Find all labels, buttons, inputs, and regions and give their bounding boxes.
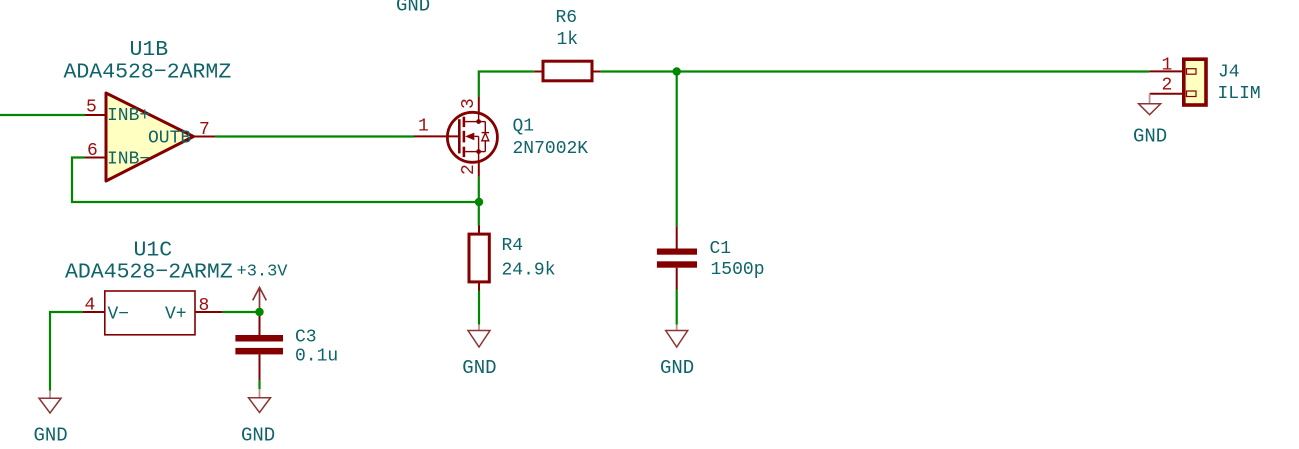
op-amp U1B [85,93,215,181]
svg-text:V−: V− [108,305,130,325]
wire C1 to GND [676,290,678,325]
junction node at R6/C1 [673,67,681,75]
svg-text:GND: GND [34,425,68,447]
svg-text:6: 6 [87,141,98,161]
svg-text:0.1u: 0.1u [295,347,338,367]
svg-text:1: 1 [1162,55,1173,75]
power GND (under C3) [249,389,271,413]
svg-text:ILIM: ILIM [1218,84,1261,104]
wire junction down to C1 [676,72,678,227]
svg-text:2: 2 [1162,76,1173,96]
svg-text:2: 2 [459,164,479,175]
op-amp U1C power unit [83,291,222,335]
svg-text:GND: GND [1133,126,1167,148]
capacitor C1 [657,226,697,289]
svg-text:C3: C3 [295,328,317,348]
svg-text:R6: R6 [556,8,578,28]
svg-text:GND: GND [660,357,694,379]
wire feedback from U1B pin6 to node under Q1 [72,158,479,203]
resistor R6 [534,61,600,81]
svg-text:24.9k: 24.9k [502,261,556,281]
connector J4 [1149,59,1206,105]
svg-text:GND: GND [462,357,496,379]
svg-text:INB−: INB− [107,150,150,170]
svg-text:Q1: Q1 [513,117,535,137]
resistor R4 [469,226,489,291]
svg-text:GND: GND [396,0,430,17]
wire Q1 source to junction to R4 [478,177,480,226]
power GND (under R4) [468,325,490,348]
power GND (left, under U1C) [39,391,61,414]
svg-text:5: 5 [86,98,97,118]
svg-text:GND: GND [241,425,275,447]
wire R4 to GND [478,291,480,325]
wire U1C pin8 to +3.3V node [222,311,259,313]
svg-text:4: 4 [85,296,96,316]
svg-text:ADA4528−2ARMZ: ADA4528−2ARMZ [65,261,233,285]
svg-text:1500p: 1500p [711,260,765,280]
svg-text:R4: R4 [502,236,524,256]
capacitor C3 [235,312,283,380]
junction node under Q1 [475,198,483,206]
svg-text:U1B: U1B [130,38,169,62]
svg-text:1k: 1k [557,30,579,50]
svg-text:V+: V+ [165,305,187,325]
svg-text:2N7002K: 2N7002K [513,139,589,159]
svg-text:C1: C1 [710,239,732,259]
svg-text:8: 8 [199,296,210,316]
svg-text:U1C: U1C [134,239,173,263]
wire U1C pin4 to GND [50,312,83,391]
svg-text:INB+: INB+ [107,106,150,126]
svg-text:OUTB: OUTB [148,129,191,149]
power flag +3.3V [253,287,267,312]
power GND (under C1) [666,325,688,348]
svg-text:7: 7 [199,120,210,140]
svg-text:1: 1 [418,117,429,137]
power GND (under J4 pin2) [1139,94,1161,115]
wire R6 to J4 pin1 [600,70,1149,72]
svg-text:ADA4528−2ARMZ: ADA4528−2ARMZ [64,61,232,85]
junction node at U1C pin8 / C3 / +3.3V [255,308,263,316]
wire input to U1B pin5 [0,114,85,116]
svg-text:3: 3 [459,98,479,109]
svg-text:+3.3V: +3.3V [237,263,289,282]
transistor Q1 [414,97,497,177]
wire U1B output to Q1 gate [215,135,414,137]
wire Q1 drain to R6 [479,72,535,98]
wire C3 to GND [258,380,260,389]
svg-text:J4: J4 [1218,63,1240,83]
